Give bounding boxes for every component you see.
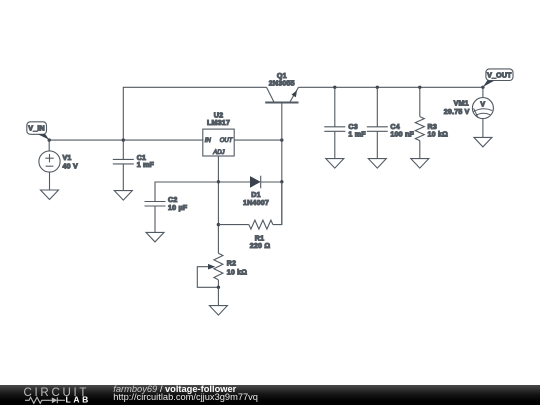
svg-text:100 nF: 100 nF: [390, 130, 414, 138]
svg-text:ADJ: ADJ: [212, 150, 225, 156]
svg-text:C1: C1: [137, 154, 146, 162]
svg-text:R3: R3: [428, 123, 437, 131]
capacitor C2: [145, 202, 166, 233]
wire C2 branch: [155, 182, 218, 202]
op-amp U2 LM317 regulator box: [203, 129, 234, 156]
svg-text:R2: R2: [227, 260, 236, 268]
svg-text:D1: D1: [251, 191, 260, 199]
node C1 junction: [122, 138, 125, 141]
resistor R1: [249, 220, 273, 229]
svg-text:2N3055: 2N3055: [269, 80, 295, 88]
svg-text:U2: U2: [214, 112, 223, 120]
svg-text:10 µF: 10 µF: [168, 204, 188, 212]
node V_IN junction: [48, 138, 51, 141]
svg-text:220 Ω: 220 Ω: [250, 242, 271, 250]
svg-text:29.75 V: 29.75 V: [444, 108, 470, 116]
capacitor C3: [324, 87, 345, 158]
wire Q1 base lead down through D1 row to R1: [281, 103, 283, 225]
wire ADJ lead down to R2: [217, 156, 219, 253]
node R1 junction: [217, 223, 220, 226]
wire R1 left lead: [218, 224, 249, 226]
node V_IN flag: [27, 122, 49, 140]
ground (below C3): [326, 159, 344, 169]
svg-text:1 mF: 1 mF: [348, 130, 366, 138]
svg-text:V1: V1: [63, 154, 72, 162]
ground (below R2): [209, 306, 227, 316]
node C3 junction: [333, 86, 336, 89]
wire LM317 OUT to base node: [234, 139, 282, 141]
svg-text:LAB: LAB: [66, 395, 91, 405]
wire top rail left (V_IN rail to Q1 collector): [123, 87, 266, 140]
CircuitLab logo: [0, 385, 110, 405]
svg-text:VM1: VM1: [454, 99, 469, 107]
svg-text:C2: C2: [168, 196, 177, 204]
svg-text:OUT: OUT: [220, 138, 234, 144]
svg-text:10 kΩ: 10 kΩ: [428, 130, 449, 138]
footer title text: [113, 385, 236, 394]
node D1 cathode junction: [280, 180, 283, 183]
wire emitter output rail: [299, 86, 483, 88]
ground (below C1): [114, 191, 132, 201]
voltage source V1: [39, 140, 60, 190]
svg-text:1 mF: 1 mF: [137, 161, 155, 169]
ground (below C4): [368, 159, 386, 169]
ground (below VM1): [474, 137, 492, 147]
node C4 junction: [376, 86, 379, 89]
svg-text:10 kΩ: 10 kΩ: [227, 268, 248, 276]
wire main input rail: [49, 139, 203, 141]
ground (below R3): [411, 159, 429, 169]
svg-text:R1: R1: [255, 234, 264, 242]
ground (below C2): [146, 232, 164, 242]
svg-text:C3: C3: [348, 123, 357, 131]
node Q1 base junction: [280, 138, 283, 141]
node R3 junction: [418, 86, 421, 89]
svg-text:1N4007: 1N4007: [243, 199, 269, 207]
wire D1 anode lead: [218, 181, 250, 183]
footer bar: [0, 385, 540, 405]
svg-text:LM317: LM317: [207, 119, 230, 127]
svg-text:V_OUT: V_OUT: [487, 72, 512, 80]
footer url text: [113, 393, 258, 402]
node V_OUT junction: [481, 86, 484, 89]
diode D1 1N4007: [250, 176, 282, 189]
node V_OUT flag: [483, 69, 513, 87]
voltmeter VM1: [472, 87, 493, 137]
svg-text:V: V: [480, 100, 485, 108]
capacitor C1: [113, 140, 134, 191]
transistor Q1 2N3055: [265, 87, 298, 102]
svg-text:40 V: 40 V: [63, 162, 78, 170]
ground (below V1): [41, 190, 59, 200]
resistor R3: [415, 87, 424, 158]
wire R1 right lead up to D1: [273, 182, 282, 225]
svg-text:Q1: Q1: [277, 72, 287, 80]
node R2 wiper junction: [217, 286, 220, 289]
svg-text:C4: C4: [390, 123, 399, 131]
wire R2 to ground: [217, 287, 219, 305]
capacitor C4: [367, 87, 388, 158]
svg-text:IN: IN: [205, 138, 212, 144]
potentiometer R2: [197, 253, 223, 287]
node C2/D1 junction: [217, 180, 220, 183]
svg-text:V_IN: V_IN: [28, 125, 45, 133]
